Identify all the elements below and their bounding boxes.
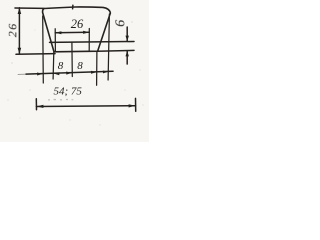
- overall width dim: left end tick: [35, 99, 37, 110]
- left dim 26: dimension line: [18, 8, 20, 54]
- arrowhead at right width extension (x108): [103, 71, 108, 74]
- arrowhead up, left dim 26 top: [18, 8, 22, 14]
- middle dim 26: right extension vertical: [88, 29, 90, 52]
- centre tick on top edge: [72, 5, 74, 9]
- overall width dim: right end tick: [135, 98, 137, 111]
- arrowhead down, left dim 26 bottom: [18, 48, 22, 54]
- bottom shared dimension line (8,8 and 54;75): [26, 71, 113, 74]
- arrowhead at bottom-right corner extension (x96.8): [91, 71, 97, 74]
- extension below bottom-right corner (dim 8): [96, 51, 98, 85]
- arrowhead up, dim 6 lower: [126, 51, 129, 57]
- arrowhead right, middle dim 26: [83, 31, 89, 34]
- middle extension vertical (between step and below, dim 8): [71, 42, 73, 76]
- svg-text:54; 75: 54; 75: [54, 86, 83, 98]
- scan speckle noise: [7, 5, 143, 126]
- part outline: trapezoid body: [43, 7, 111, 52]
- arrowhead left, overall width dim: [37, 105, 44, 108]
- bottom edge extension (right, for dim 6): [98, 49, 134, 52]
- arrowhead left, middle dim 26: [55, 31, 61, 34]
- svg-text:8: 8: [58, 60, 64, 72]
- svg-text:6: 6: [113, 20, 128, 27]
- svg-text:26: 26: [71, 17, 84, 31]
- svg-text:26: 26: [5, 22, 19, 37]
- arrowhead right, overall width dim: [129, 104, 136, 107]
- left dim 26: top extension line: [15, 7, 44, 9]
- arrowhead at left width extension (x43): [37, 73, 43, 76]
- svg-text:8: 8: [77, 60, 83, 72]
- dim 6: upper dimension line segment with leader: [126, 27, 128, 41]
- dim 6: lower dimension line segment: [126, 51, 128, 64]
- arrowhead down, dim 6 upper: [126, 36, 129, 42]
- extension from top-right corner down to width dim: [108, 14, 109, 80]
- step line (ledge, extended right for dim 6): [50, 41, 135, 44]
- extension from top-left corner down to width dim: [42, 16, 45, 83]
- middle dim 26: left extension vertical: [54, 29, 56, 52]
- extension below bottom-left corner (dim 8): [52, 52, 55, 79]
- arrowhead at middle extension (x72): [66, 72, 72, 75]
- left dim 26: bottom extension line: [16, 53, 55, 56]
- bottom dimension line faint left tail: [18, 73, 26, 75]
- overall width dim: dimension line: [36, 105, 135, 108]
- middle dim 26: dimension line: [55, 31, 89, 34]
- arrowhead at bottom-left corner extension (x53.5): [54, 72, 60, 75]
- faint remnants of cropped text above bottom dim: [48, 99, 73, 101]
